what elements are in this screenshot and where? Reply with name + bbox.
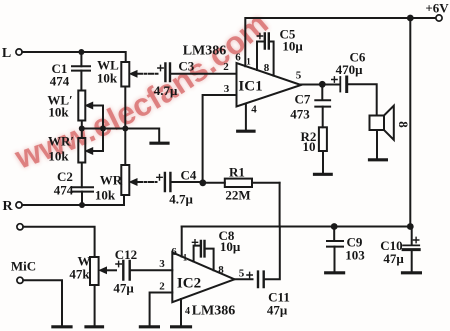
node R-C2 junction [79, 202, 85, 208]
svg-text:22M: 22M [225, 188, 250, 203]
svg-text:10k: 10k [95, 188, 116, 203]
input terminal R [16, 202, 22, 208]
wire pin5 IC2 output [235, 278, 253, 280]
input terminal L [16, 49, 22, 55]
wire WL bottom to node [124, 87, 126, 129]
svg-text:4.7μ: 4.7μ [169, 192, 193, 207]
svg-text:10k: 10k [48, 105, 69, 120]
svg-text:C12: C12 [115, 247, 137, 262]
capacitor C6 polarity [332, 77, 337, 82]
svg-text:WR: WR [100, 173, 123, 188]
op-amp U2 LM386 IC2 [172, 252, 234, 302]
capacitor C3 [165, 64, 236, 82]
svg-text:8: 8 [218, 264, 224, 276]
wire L to WL top [22, 52, 126, 62]
svg-text:3: 3 [224, 83, 230, 95]
node line (ground bus) [82, 129, 159, 143]
svg-text:47μ: 47μ [267, 303, 288, 318]
node C9 [331, 223, 338, 230]
wire WR top to node [124, 129, 126, 166]
ground C10 [403, 271, 421, 274]
svg-text:L: L [2, 46, 11, 61]
capacitor C11 [258, 227, 280, 288]
capacitor C11 polarity [247, 272, 252, 277]
potentiometer WL' [78, 91, 85, 121]
wire C1 branch [80, 52, 82, 91]
svg-text:10: 10 [303, 139, 316, 154]
op-amp U1 LM386 IC1 [237, 63, 302, 107]
svg-text:R: R [2, 199, 13, 214]
watermark www.elecfans.com [10, 5, 275, 176]
input label R [2, 199, 13, 214]
capacitor C4 [165, 173, 203, 191]
potentiometer WL [121, 62, 129, 87]
svg-text:+6V: +6V [425, 1, 449, 16]
svg-text:MiC: MiC [11, 259, 36, 274]
svg-text:473: 473 [290, 107, 310, 122]
svg-text:C4: C4 [181, 168, 197, 183]
wire pin6 IC1 to +6V rail [245, 18, 436, 66]
node C10 corner [407, 223, 414, 230]
pin labels IC1 [223, 52, 302, 116]
capacitor C2 [72, 163, 93, 206]
svg-text:IC2: IC2 [177, 276, 201, 292]
svg-text:10k: 10k [48, 149, 69, 164]
wiper arrow WR' [86, 129, 104, 155]
wire pin2 IC2 to ground [150, 293, 173, 326]
wire node to pin3 IC1 [203, 95, 237, 183]
svg-text:474: 474 [54, 183, 74, 198]
node output junction [319, 81, 326, 88]
svg-text:C7: C7 [295, 92, 311, 107]
+6V terminal [436, 15, 442, 21]
node dots on bus [79, 126, 129, 132]
svg-text:6: 6 [171, 246, 177, 258]
speaker 8 ohm [370, 106, 394, 140]
svg-text:LM386: LM386 [183, 44, 227, 59]
ground C9 [326, 271, 344, 274]
svg-text:3: 3 [159, 258, 165, 270]
input label L [2, 46, 11, 61]
svg-text:10μ: 10μ [282, 39, 303, 54]
svg-text:1: 1 [183, 253, 188, 263]
svg-text:5: 5 [239, 268, 245, 280]
svg-text:47k: 47k [69, 267, 90, 282]
wiper arrow WR [130, 179, 157, 185]
svg-text:6: 6 [235, 52, 241, 64]
wire speaker to ground [376, 130, 378, 158]
wire pin4 IC2 to ground [180, 299, 182, 325]
ground center [151, 142, 168, 145]
capacitor C6 [340, 77, 376, 116]
wire MIC to ground [23, 280, 62, 325]
potentiometer W 47k [90, 257, 99, 285]
svg-text:474: 474 [50, 74, 70, 89]
ground IC2 pin2 [140, 325, 158, 328]
svg-text:WR′: WR′ [48, 134, 74, 149]
capacitor C1 [72, 66, 90, 70]
ground IC2 pin4 [172, 325, 191, 328]
wire MIC top to W pot [23, 227, 94, 257]
wire output pin5 [301, 84, 340, 86]
ground R2 [315, 173, 332, 176]
wire R1 to supply rail [279, 183, 281, 226]
svg-text:IC1: IC1 [238, 79, 262, 95]
wiper arrow W [99, 267, 116, 273]
resistor R2 [319, 127, 327, 172]
svg-text:10k: 10k [97, 71, 118, 86]
svg-text:R1: R1 [229, 165, 245, 180]
svg-text:47μ: 47μ [383, 251, 404, 266]
svg-text:103: 103 [345, 248, 365, 263]
node L-C1 junction [78, 49, 84, 55]
svg-text:4: 4 [251, 104, 257, 116]
bottom supply rail [182, 226, 411, 228]
svg-text:4: 4 [185, 306, 190, 317]
svg-text:5: 5 [296, 70, 302, 82]
ground MIC [53, 325, 71, 328]
wiper arrow WL to C3 polarity [158, 65, 163, 70]
svg-text:1: 1 [246, 57, 251, 67]
capacitor C7 [315, 84, 330, 127]
svg-text:8: 8 [264, 62, 270, 74]
svg-text:10μ: 10μ [220, 239, 241, 254]
ground IC1 pin4 [238, 105, 254, 132]
svg-text:47μ: 47μ [113, 281, 134, 296]
wire R to WR bottom [22, 195, 124, 205]
svg-text:2: 2 [223, 61, 229, 73]
MIC input terminal [17, 277, 23, 283]
node +6V rail [407, 15, 414, 22]
wiper arrow WL [130, 71, 158, 77]
capacitor C12 polarity [116, 261, 121, 266]
resistor R1 [203, 179, 280, 187]
wire +6V down to bottom rail [409, 18, 411, 227]
capacitor C4 polarity [157, 175, 162, 180]
wire WL'-WR' [81, 121, 83, 139]
node C4-R1-pin3 [199, 179, 206, 186]
svg-text:LM386: LM386 [192, 304, 236, 319]
wiper arrow WL' [86, 102, 104, 128]
svg-text:8: 8 [396, 121, 411, 128]
svg-text:C3: C3 [178, 59, 194, 74]
ground speaker [370, 158, 387, 161]
potentiometer WR' [78, 138, 85, 163]
capacitor C10 [403, 227, 419, 272]
capacitor C8 loop pins 1-8 [192, 240, 213, 271]
capacitor C9 [327, 227, 343, 272]
capacitor C5 loop pins 1-8 [257, 33, 274, 75]
ground W pot [86, 285, 103, 327]
pin labels IC2 [159, 246, 245, 317]
svg-text:2: 2 [159, 281, 165, 293]
capacitor C10 polarity [413, 237, 418, 242]
svg-text:4.7μ: 4.7μ [154, 83, 178, 98]
potentiometer WR [121, 165, 129, 195]
wire pin6 IC2 to rail [181, 227, 183, 257]
svg-text:470μ: 470μ [336, 62, 364, 77]
MIC top terminal [17, 224, 23, 230]
capacitor C12 [123, 261, 172, 280]
